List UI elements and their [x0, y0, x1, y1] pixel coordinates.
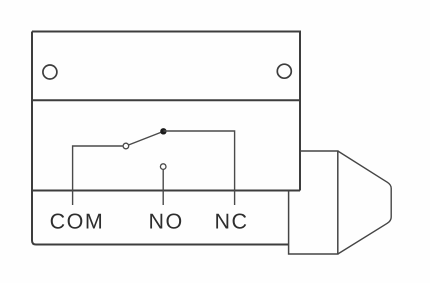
wire from NC contact to NC lead	[163, 131, 234, 205]
switch body left edge	[32, 32, 36, 245]
mounting hole right	[277, 64, 291, 78]
NC contact junction (solid dot)	[160, 128, 166, 134]
svg-text:NO: NO	[148, 209, 183, 233]
COM lead wire	[73, 146, 123, 205]
actuator cone tip	[338, 151, 391, 254]
divider line between mounting section and contact section	[32, 99, 300, 101]
divider line above terminal labels	[32, 190, 300, 192]
pivot contact (open circle)	[123, 143, 129, 149]
mounting hole left	[43, 65, 57, 79]
switch lever arm	[129, 131, 164, 145]
NO contact (open circle)	[160, 164, 166, 170]
switch body upper section	[32, 32, 300, 191]
body bottom edge	[36, 244, 289, 246]
svg-text:NC: NC	[214, 209, 248, 233]
NO lead wire	[162, 170, 164, 205]
svg-text:COM: COM	[50, 209, 105, 233]
actuator plunger rectangle	[289, 151, 338, 254]
